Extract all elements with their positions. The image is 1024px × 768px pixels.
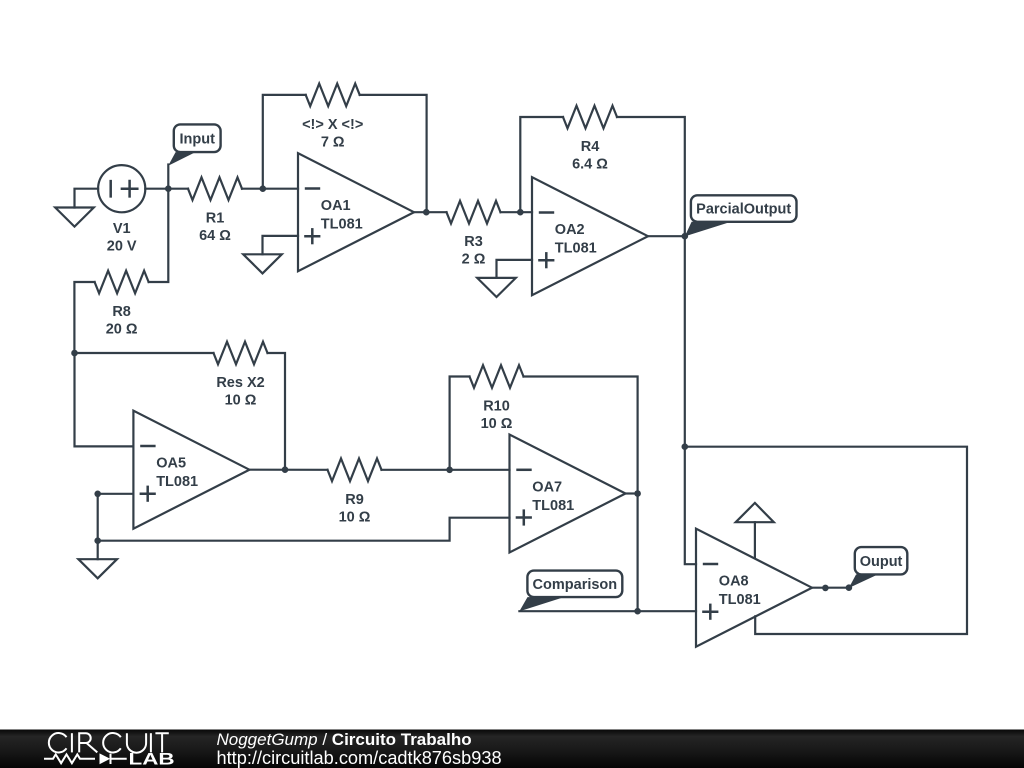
resistor R1 64 ohm: [188, 177, 242, 244]
svg-text:R8: R8: [112, 304, 131, 320]
wire node A down into OA5 inverting input: [75, 353, 134, 446]
node OA7 output node: [634, 490, 641, 497]
svg-text:<!> X <!>: <!> X <!>: [302, 117, 363, 133]
svg-text:LAB: LAB: [129, 750, 175, 768]
wire OA1 + input to ground: [263, 236, 299, 254]
wire OA2 feedback left: [520, 117, 563, 212]
logo diode: [110, 754, 127, 764]
logo letter U: [127, 733, 146, 752]
svg-text:TL081: TL081: [156, 474, 198, 490]
op-amp OA7 (TL081): [510, 435, 626, 553]
footer bar: [0, 730, 1024, 768]
node OA1 output node: [423, 209, 430, 216]
svg-text:Res X2: Res X2: [216, 375, 264, 391]
logo letter T: [155, 733, 168, 752]
svg-text:TL081: TL081: [532, 498, 574, 514]
wire OA7 feedback left: [450, 377, 470, 470]
flag Ouput: [849, 547, 908, 588]
svg-text:7 Ω: 7 Ω: [321, 134, 345, 150]
power supply arrow VCC on OA8: [736, 503, 774, 558]
wire OA7 feedback right: [524, 377, 638, 494]
wire OA5 + input down to ground: [98, 494, 134, 559]
node supply-rect node: [682, 443, 689, 450]
resistor R4 6.4 ohm: [563, 106, 617, 173]
svg-text:Comparison: Comparison: [533, 577, 618, 593]
flag Input: [168, 124, 220, 165]
wire V1 to input node and R1: [145, 188, 188, 190]
wire OA2 output to node: [648, 235, 685, 237]
wire input node down to R8: [149, 189, 169, 282]
svg-text:10 Ω: 10 Ω: [481, 416, 513, 432]
svg-text:TL081: TL081: [555, 241, 597, 257]
wire OA1 feedback left: [263, 95, 306, 189]
wire ground bus node to OA7 + input (long run): [98, 518, 510, 541]
ground G4 (OA5+): [78, 559, 117, 578]
resistor X 7 ohm zigzag: [302, 84, 363, 151]
wire node A to Res X2: [75, 352, 214, 354]
svg-text:Input: Input: [179, 131, 215, 147]
node OA7 inverting node: [446, 467, 453, 474]
svg-text:OA8: OA8: [719, 574, 749, 590]
wire R9 to OA7 node: [382, 469, 450, 471]
logo letter C2: [103, 733, 121, 752]
svg-text:OA5: OA5: [156, 456, 186, 472]
wire OA2 + input to ground: [497, 260, 533, 278]
wire OA1 output to R3: [414, 211, 447, 213]
node OA5 + node: [94, 491, 101, 498]
svg-text:6.4 Ω: 6.4 Ω: [572, 157, 608, 173]
svg-text:ParcialOutput: ParcialOutput: [696, 202, 791, 218]
svg-text:64 Ω: 64 Ω: [199, 228, 231, 244]
op-amp OA2 (TL081): [532, 177, 648, 295]
wire OA7 output to node: [626, 492, 638, 494]
wire input node up to flag: [167, 165, 169, 189]
svg-text:R4: R4: [581, 139, 600, 155]
svg-text:2 Ω: 2 Ω: [462, 252, 486, 268]
wire OA8 output: [812, 587, 849, 589]
voltage source V1: [98, 165, 145, 254]
flag ParcialOutput: [685, 195, 797, 236]
ground G3 (OA2+): [477, 278, 516, 297]
wire OA7 output down: [636, 494, 638, 612]
node OA8 output node 1: [822, 585, 829, 592]
resistor R8 20 ohm: [95, 271, 149, 338]
wire OA1 feedback right: [360, 95, 427, 212]
node OA8 output node 2: [846, 584, 853, 591]
node R1/feedback node: [260, 185, 267, 192]
wire supply rectangle loop: [685, 447, 967, 634]
wire OA5 output to R9: [249, 469, 327, 471]
svg-text:20 Ω: 20 Ω: [106, 322, 138, 338]
svg-text:R10: R10: [483, 399, 510, 415]
svg-text:V1: V1: [113, 221, 131, 237]
svg-text:10 Ω: 10 Ω: [225, 393, 257, 409]
resistor Res X2 10 ohm: [214, 342, 268, 409]
svg-text:OA7: OA7: [532, 480, 562, 496]
wire R3 to OA2 inverting input: [501, 211, 533, 213]
svg-text:NoggetGump / Circuito Trabalho: NoggetGump / Circuito Trabalho: [217, 730, 472, 749]
ground G2 (OA1+): [243, 254, 282, 273]
op-amp OA8 (TL081): [696, 529, 812, 647]
node input node: [165, 185, 172, 192]
svg-text:TL081: TL081: [321, 217, 363, 233]
resistor R9 10 ohm: [328, 458, 382, 525]
svg-text:20 V: 20 V: [107, 239, 137, 255]
wire ParcialOutput vertical down: [684, 236, 686, 447]
logo diode triangle: [100, 753, 111, 764]
svg-text:R3: R3: [464, 234, 483, 250]
wire Res X2 right lead down to OA5 output: [268, 353, 286, 470]
node OA2 inverting node: [517, 209, 524, 216]
wire comparison run to OA8 +: [519, 610, 696, 612]
resistor R10 10 ohm: [470, 365, 524, 432]
wire R8 left lead down to node A: [74, 282, 94, 353]
resistor R3 2 ohm: [447, 201, 501, 268]
svg-text:R1: R1: [206, 211, 225, 227]
node ground bus node: [94, 537, 101, 544]
svg-text:Ouput: Ouput: [860, 554, 903, 570]
wire vertical into OA8 inverting input: [685, 447, 696, 565]
logo letter I: [71, 733, 73, 752]
wire R1 to OA1 inverting input: [242, 188, 298, 190]
wire into OA7 inverting input: [450, 469, 510, 471]
logo letter C: [49, 733, 67, 752]
svg-text:OA2: OA2: [555, 222, 585, 238]
logo letter I2: [150, 733, 152, 752]
wire OA2 feedback right: [617, 117, 685, 236]
node ParcialOutput node: [682, 233, 689, 240]
ground G1 (V1): [55, 208, 94, 227]
svg-text:OA1: OA1: [321, 198, 351, 214]
node node A: [71, 350, 78, 357]
flag Comparison: [519, 571, 622, 612]
wire V1 left lead to ground: [75, 189, 99, 208]
svg-text:http://circuitlab.com/cadtk876: http://circuitlab.com/cadtk876sb938: [217, 748, 502, 768]
node OA5 output node: [282, 466, 289, 473]
svg-text:R9: R9: [345, 492, 364, 508]
logo letter R: [79, 733, 97, 752]
logo resistor squiggle: [44, 754, 95, 763]
op-amp OA5 (TL081): [133, 411, 249, 529]
svg-text:TL081: TL081: [719, 592, 761, 608]
op-amp OA1 (TL081): [298, 153, 414, 271]
svg-text:10 Ω: 10 Ω: [339, 509, 371, 525]
node comparison node: [634, 608, 641, 615]
